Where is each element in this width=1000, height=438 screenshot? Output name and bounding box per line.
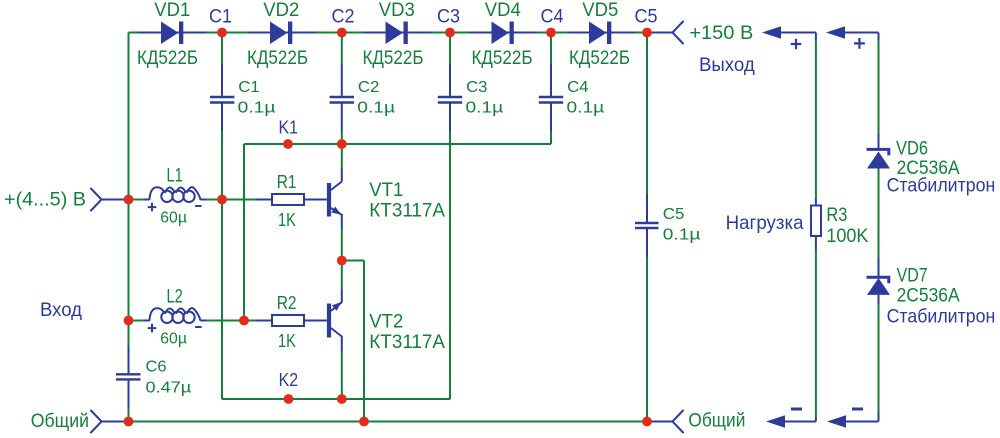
svg-text:КД522Б: КД522Б xyxy=(472,47,533,69)
svg-text:100K: 100K xyxy=(826,225,868,247)
svg-text:VT1: VT1 xyxy=(369,179,403,201)
svg-text:VT2: VT2 xyxy=(369,311,403,333)
svg-text:L2: L2 xyxy=(167,286,183,307)
svg-text:КД522Б: КД522Б xyxy=(247,47,308,69)
svg-text:Стабилитрон: Стабилитрон xyxy=(887,305,996,327)
svg-text:0.1µ: 0.1µ xyxy=(466,99,504,116)
svg-text:VD1: VD1 xyxy=(154,0,190,21)
svg-text:КД522Б: КД522Б xyxy=(363,47,424,69)
svg-text:Нагрузка: Нагрузка xyxy=(726,212,804,234)
svg-text:C1: C1 xyxy=(238,79,260,96)
svg-text:C3: C3 xyxy=(466,79,488,96)
svg-text:+(4...5) В: +(4...5) В xyxy=(4,189,86,211)
svg-text:КД522Б: КД522Б xyxy=(137,47,198,69)
svg-text:R3: R3 xyxy=(826,205,847,226)
svg-text:0.1µ: 0.1µ xyxy=(663,227,701,244)
svg-text:1K: 1K xyxy=(278,330,296,351)
svg-text:КТ3117А: КТ3117А xyxy=(369,331,445,353)
svg-text:2С536А: 2С536А xyxy=(897,285,960,307)
svg-text:K1: K1 xyxy=(279,116,299,137)
svg-text:60µ: 60µ xyxy=(160,210,187,227)
svg-text:VD5: VD5 xyxy=(582,0,618,21)
svg-text:+150 В: +150 В xyxy=(689,22,753,44)
svg-text:0.1µ: 0.1µ xyxy=(567,99,605,116)
svg-text:C2: C2 xyxy=(358,79,380,96)
svg-text:КТ3117А: КТ3117А xyxy=(369,200,445,222)
svg-text:C1: C1 xyxy=(209,6,232,28)
svg-text:L1: L1 xyxy=(167,165,183,186)
svg-text:VD7: VD7 xyxy=(897,265,928,287)
svg-text:0.1µ: 0.1µ xyxy=(238,99,276,116)
svg-text:C6: C6 xyxy=(146,359,167,376)
svg-text:VD4: VD4 xyxy=(485,0,521,21)
svg-text:0.47µ: 0.47µ xyxy=(146,380,192,397)
svg-text:Выход: Выход xyxy=(699,54,755,76)
svg-text:R2: R2 xyxy=(277,292,297,313)
svg-text:Вход: Вход xyxy=(40,299,83,321)
svg-text:R1: R1 xyxy=(277,171,297,192)
svg-text:0.1µ: 0.1µ xyxy=(357,99,395,116)
svg-text:VD2: VD2 xyxy=(263,0,299,21)
svg-text:C4: C4 xyxy=(541,6,564,28)
svg-text:C5: C5 xyxy=(663,206,685,223)
svg-text:Общий: Общий xyxy=(31,410,89,432)
svg-text:C2: C2 xyxy=(332,6,355,28)
svg-text:C3: C3 xyxy=(437,6,460,28)
svg-text:КД522Б: КД522Б xyxy=(569,47,630,69)
svg-text:Общий: Общий xyxy=(688,410,745,432)
svg-text:Стабилитрон: Стабилитрон xyxy=(887,175,996,197)
svg-text:C5: C5 xyxy=(635,6,658,28)
svg-text:K2: K2 xyxy=(279,369,299,390)
svg-text:60µ: 60µ xyxy=(160,331,187,348)
svg-text:VD3: VD3 xyxy=(379,0,415,21)
svg-text:C4: C4 xyxy=(567,79,589,96)
svg-text:1K: 1K xyxy=(278,209,296,230)
